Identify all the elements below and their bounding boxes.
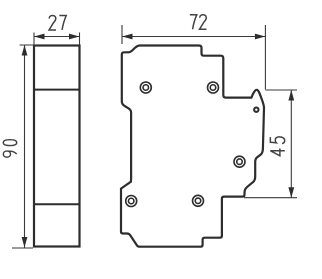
dim 27 label bbox=[49, 15, 66, 30]
dim 45 extension lines bbox=[244, 90, 297, 198]
dim 90 arrow top bbox=[22, 45, 28, 56]
screw ring B bbox=[208, 82, 219, 93]
dim 72 arrow right bbox=[255, 34, 266, 40]
dim 72 line bbox=[122, 36, 265, 38]
screw ring E bbox=[126, 196, 137, 207]
small pin hole F bbox=[254, 108, 258, 112]
front view divider bottom bbox=[34, 203, 80, 205]
dim 90 line bbox=[24, 45, 26, 248]
front view body bbox=[34, 46, 80, 247]
dim 72 label bbox=[190, 15, 207, 30]
dim 45 arrow bottom bbox=[288, 187, 294, 198]
dim 90 extension ticks bbox=[12, 45, 36, 248]
screw ring C bbox=[234, 156, 245, 167]
dim 45 arrow top bbox=[288, 90, 294, 101]
dim 45 label bbox=[270, 137, 284, 156]
screw ring D bbox=[193, 195, 204, 206]
dim 90 label bbox=[3, 140, 16, 157]
dim 27 arrow left bbox=[34, 34, 45, 40]
dim 72 arrow left bbox=[122, 34, 133, 40]
dim 27 extension lines bbox=[34, 33, 80, 45]
dim 45 line bbox=[290, 90, 292, 198]
front view divider top bbox=[34, 89, 80, 91]
dim 90 arrow bottom bbox=[22, 237, 28, 248]
screw ring A bbox=[140, 82, 151, 93]
side view outline bbox=[121, 46, 264, 247]
dim 27 arrow right bbox=[69, 34, 80, 40]
dim 27 line bbox=[34, 36, 80, 38]
dim 72 extension lines bbox=[122, 25, 265, 90]
